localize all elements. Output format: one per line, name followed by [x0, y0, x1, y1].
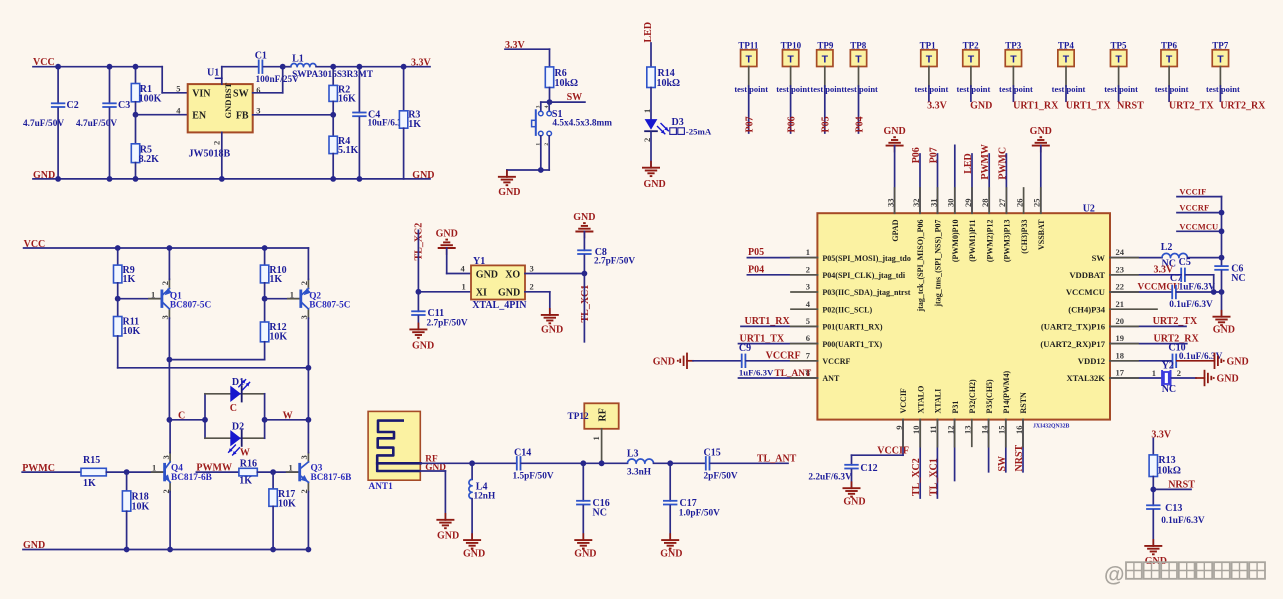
wire C7 to bus — [1177, 291, 1222, 293]
wire pin 2 — [747, 274, 817, 276]
wire C10 to GND — [1177, 360, 1215, 362]
resistor R17 — [269, 472, 296, 549]
svg-text:1K: 1K — [83, 478, 96, 489]
net label SW — [567, 92, 583, 103]
svg-text:SW: SW — [997, 456, 1008, 472]
svg-text:jtag_tck_(SPI_MISO)_P06: jtag_tck_(SPI_MISO)_P06 — [916, 220, 925, 313]
junction — [219, 176, 225, 182]
resistor R13 — [1149, 455, 1181, 477]
label test point — [1052, 84, 1086, 94]
pin 1 — [290, 289, 294, 299]
svg-text:test point: test point — [1155, 84, 1189, 94]
svg-text:(PWM0)P10: (PWM0)P10 — [951, 220, 960, 263]
svg-text:GND: GND — [1030, 126, 1052, 137]
wire pin 17 — [1110, 377, 1161, 379]
svg-text:W: W — [283, 410, 293, 421]
svg-text:P32(CH2): P32(CH2) — [968, 379, 977, 414]
svg-text:XTAL_4PIN: XTAL_4PIN — [472, 300, 527, 311]
net label VCCIF — [877, 445, 909, 456]
svg-text:test point: test point — [734, 84, 768, 94]
svg-text:2: 2 — [160, 281, 170, 285]
net label NRST — [1117, 101, 1144, 112]
svg-text:5: 5 — [176, 84, 180, 94]
svg-text:ANT: ANT — [822, 374, 840, 383]
capacitor C1 — [255, 51, 299, 86]
wire pin 16 — [1022, 420, 1024, 472]
svg-text:1: 1 — [290, 289, 294, 299]
pin 3 — [256, 105, 260, 115]
junction — [667, 460, 673, 466]
capacitor C16 — [576, 463, 610, 540]
test point TP11 — [738, 41, 759, 67]
wire pin 30 — [954, 145, 956, 213]
capacitor C14 — [513, 448, 554, 482]
junction — [357, 176, 363, 182]
pin 2 — [299, 489, 309, 493]
svg-text:T: T — [1217, 54, 1224, 66]
net label W — [283, 410, 293, 421]
svg-text:T: T — [968, 54, 975, 66]
svg-text:4: 4 — [544, 105, 550, 108]
svg-text:TP3: TP3 — [1005, 41, 1022, 51]
capacitor C10 — [1110, 342, 1223, 368]
ground — [686, 353, 688, 369]
ground — [1040, 146, 1042, 152]
test point TP2 — [963, 41, 980, 67]
wire D3 to GND — [650, 132, 652, 168]
net label VCCIF — [1179, 187, 1206, 197]
net label 3.3V — [1154, 265, 1175, 276]
svg-text:10K: 10K — [132, 502, 150, 513]
test point TP12 — [568, 403, 619, 429]
svg-text:TP10: TP10 — [781, 41, 802, 51]
svg-text:P02(IIC_SCL): P02(IIC_SCL) — [822, 305, 872, 314]
svg-text:1uF/6.3V: 1uF/6.3V — [739, 368, 774, 378]
svg-text:T: T — [745, 54, 752, 66]
pin name (PWM0)P10 — [951, 220, 960, 263]
wire TL_ANT — [710, 462, 788, 464]
pin 8 — [806, 368, 810, 378]
label test point — [810, 84, 844, 94]
wire pin 21 stub — [1110, 308, 1157, 310]
pin name P04(SPI_CLK)_jtag_tdi — [822, 271, 905, 280]
svg-text:10kΩ: 10kΩ — [1157, 465, 1181, 476]
svg-text:1uF/6.3V: 1uF/6.3V — [1179, 282, 1216, 292]
wire L4 to GND — [471, 499, 473, 540]
pin name P02(IIC_SCL) — [822, 305, 872, 314]
net label TL_XC1 vertical — [580, 285, 591, 323]
pin name VSSBAT — [1037, 219, 1046, 250]
svg-text:BC807-5C: BC807-5C — [170, 301, 211, 311]
svg-text:BC817-6B: BC817-6B — [311, 473, 352, 483]
pin name (PWM2)P12 — [985, 220, 994, 263]
wire pin 24 to L2 — [1110, 257, 1162, 259]
svg-text:R16: R16 — [240, 458, 257, 469]
value blue-25mA — [670, 126, 712, 136]
pin BST wire — [222, 67, 258, 84]
svg-text:5: 5 — [806, 316, 810, 326]
svg-text:3.3V: 3.3V — [411, 57, 432, 68]
svg-text:BST: BST — [223, 82, 233, 98]
pin name XTALI — [934, 389, 943, 414]
svg-text:1: 1 — [151, 289, 155, 299]
wire VCCRF — [1177, 212, 1222, 214]
wire LED net — [650, 43, 652, 67]
resistor R15 — [81, 468, 106, 476]
junction — [306, 365, 312, 371]
wire ANT GND — [421, 471, 446, 520]
pin 1 — [151, 289, 155, 299]
svg-text:test point: test point — [915, 84, 949, 94]
pin name (PWM1)P11 — [968, 220, 977, 262]
svg-text:1.0pF/50V: 1.0pF/50V — [679, 509, 720, 519]
svg-text:GND: GND — [412, 341, 434, 352]
junction — [167, 417, 173, 423]
ground — [582, 534, 584, 540]
pin 2 — [642, 138, 652, 142]
svg-text:D3: D3 — [672, 117, 684, 128]
svg-text:VCCIF: VCCIF — [899, 388, 908, 413]
svg-text:0.1uF/6.3V: 0.1uF/6.3V — [1169, 300, 1213, 310]
pin 4 — [544, 105, 550, 108]
svg-text:SW: SW — [233, 88, 249, 99]
ground — [1221, 311, 1223, 317]
pin name XTAL32K — [1066, 373, 1105, 383]
pin name GPAD — [891, 219, 900, 241]
ground — [650, 162, 652, 168]
svg-text:TP7: TP7 — [1212, 41, 1229, 51]
test point TP6 — [1161, 41, 1178, 67]
pin 15 — [997, 426, 1007, 435]
svg-text:GND: GND — [574, 549, 596, 560]
pin 2 wire GND — [525, 292, 550, 315]
label test point — [1206, 84, 1240, 94]
svg-text:1: 1 — [642, 109, 652, 113]
pin 4 — [806, 299, 811, 309]
wire bus — [1221, 197, 1223, 267]
pin name P03(IIC_SDA)_jtag_ntrst — [822, 288, 910, 297]
pin name VCCRF — [822, 357, 850, 366]
wire Q3 emitter — [307, 492, 309, 550]
junction — [124, 547, 130, 553]
svg-text:C2: C2 — [67, 100, 79, 111]
svg-text:C13: C13 — [1165, 503, 1182, 514]
capacitor C13 — [1146, 503, 1205, 546]
pin name P14(PWM4) — [1002, 371, 1011, 414]
net label URT1_TX — [740, 333, 785, 344]
svg-text:T: T — [1063, 54, 1070, 66]
pin 1 — [289, 463, 293, 473]
switch S1 — [532, 102, 613, 136]
wire C5 to pin22 row — [1186, 275, 1214, 292]
pin 32 — [911, 199, 921, 208]
capacitor C6 — [1214, 264, 1245, 285]
svg-text:U1: U1 — [207, 68, 219, 79]
net label TL_ANT — [757, 453, 797, 464]
wire pin 10 — [919, 420, 921, 498]
svg-text:L3: L3 — [627, 449, 639, 460]
net label 3.3V — [927, 101, 948, 112]
net label URT2_TX — [1153, 316, 1198, 327]
svg-text:RSTN: RSTN — [1019, 392, 1028, 414]
pin 5 — [806, 316, 810, 326]
pin 19 — [1116, 333, 1125, 343]
wire S1 to GND — [507, 136, 549, 177]
wire Y2 to GND — [1172, 377, 1205, 379]
wire to Q4 base — [106, 471, 163, 473]
pin wire — [1168, 67, 1170, 102]
junction — [1219, 289, 1225, 295]
crystal Y2 — [1162, 360, 1176, 395]
junction — [124, 469, 130, 475]
wire to Q3 base — [257, 471, 298, 473]
svg-text:T: T — [1115, 54, 1122, 66]
capacitor C15 — [704, 448, 738, 482]
wire pin 31 — [937, 154, 939, 213]
wire pin 19 — [1110, 343, 1187, 345]
pin 30 — [946, 199, 956, 208]
wire C14 to L3 — [521, 462, 627, 464]
svg-text:(CH3)P33: (CH3)P33 — [1020, 220, 1029, 254]
svg-text:LED: LED — [643, 22, 654, 43]
pin 17 — [1116, 368, 1125, 378]
resistor R11 — [114, 299, 141, 368]
junction — [262, 417, 268, 423]
junction — [133, 64, 139, 70]
pin name P01(UART1_RX) — [822, 323, 882, 332]
wire pin 8 — [739, 377, 818, 379]
net label 3.3V — [505, 40, 526, 51]
svg-text:P03(IIC_SDA)_jtag_ntrst: P03(IIC_SDA)_jtag_ntrst — [822, 288, 910, 297]
net label C — [178, 410, 185, 421]
svg-text:VCCIF: VCCIF — [1179, 187, 1206, 197]
net label P04 — [854, 116, 865, 132]
svg-text:P00(UART1_TX): P00(UART1_TX) — [822, 340, 882, 349]
wire pin 3 stub — [791, 291, 817, 293]
LED D1 — [230, 386, 241, 402]
net label URT1_RX — [1013, 101, 1059, 112]
svg-text:22: 22 — [1116, 282, 1125, 292]
wire R14 to D3 — [650, 88, 652, 120]
junction — [167, 547, 173, 553]
wire Q4 emitter — [169, 492, 171, 550]
label test point — [915, 84, 949, 94]
pin name P00(UART1_TX) — [822, 340, 882, 349]
net label PWMW — [196, 462, 232, 473]
svg-text:NC: NC — [593, 508, 607, 519]
svg-text:2: 2 — [299, 489, 309, 493]
inductor L3 — [628, 459, 654, 463]
svg-text:3.3nH: 3.3nH — [627, 468, 652, 478]
wire SW to C1 — [253, 67, 283, 93]
pin stubs left — [791, 258, 818, 378]
wire GND rail — [33, 178, 430, 180]
svg-text:16K: 16K — [338, 94, 356, 105]
wire Q4 collector — [169, 420, 171, 453]
svg-text:10K: 10K — [278, 499, 296, 510]
pin 2 — [212, 132, 222, 179]
svg-text:VCCIF: VCCIF — [877, 445, 909, 456]
wire FB net — [253, 114, 334, 116]
pin wire — [790, 67, 792, 134]
pin 3 — [806, 282, 810, 292]
net label VCCRF — [1179, 203, 1209, 213]
svg-text:1: 1 — [152, 463, 156, 473]
svg-text:18: 18 — [1116, 350, 1125, 360]
net label PWMC vertical — [997, 147, 1008, 180]
svg-text:P06: P06 — [786, 116, 797, 132]
pin 1 — [462, 282, 466, 292]
junction — [1211, 289, 1217, 295]
wire PWMC — [22, 471, 81, 473]
net label TL_XC2 vertical — [414, 223, 425, 261]
pin 5 — [176, 84, 180, 94]
pin 1 — [152, 463, 156, 473]
svg-text:100K: 100K — [139, 94, 162, 105]
pin 26 — [1014, 199, 1024, 208]
svg-text:test point: test point — [1104, 84, 1138, 94]
svg-text:URT1_RX: URT1_RX — [1013, 101, 1059, 112]
test point TP1 — [920, 41, 937, 67]
svg-text:3: 3 — [161, 455, 171, 459]
svg-text:TP11: TP11 — [738, 41, 759, 51]
antenna ANT1 — [368, 411, 420, 492]
svg-text:JXI432QN32B: JXI432QN32B — [1033, 424, 1070, 430]
svg-text:2.7pF/50V: 2.7pF/50V — [427, 318, 468, 328]
svg-text:(CH4)P34: (CH4)P34 — [1068, 304, 1105, 314]
ground — [471, 534, 473, 540]
wire R13 to NRST — [1152, 477, 1154, 506]
pin 3 — [530, 263, 534, 273]
svg-text:2pF/50V: 2pF/50V — [704, 472, 738, 482]
resistor R12 — [260, 299, 287, 360]
resistor R2 — [329, 67, 356, 115]
svg-text:Y2: Y2 — [1162, 360, 1174, 371]
svg-text:P35(CH5): P35(CH5) — [985, 379, 994, 414]
svg-text:TP4: TP4 — [1058, 41, 1075, 51]
svg-text:U2: U2 — [1083, 204, 1095, 215]
ground — [669, 534, 671, 540]
svg-text:2: 2 — [212, 141, 222, 145]
net label VCCRF — [766, 351, 801, 362]
LED D2 — [230, 430, 241, 446]
wire GND to C8 — [583, 232, 585, 251]
svg-text:GND: GND — [476, 269, 498, 280]
wire bus lower — [1221, 271, 1223, 317]
ground — [1214, 353, 1216, 369]
net label LED vertical — [963, 153, 974, 174]
svg-text:TP6: TP6 — [1161, 41, 1178, 51]
pin 28 — [980, 199, 990, 208]
svg-text:FB: FB — [236, 110, 249, 121]
IC U2 — [817, 204, 1110, 420]
pin 3 — [160, 315, 170, 319]
junction — [115, 296, 121, 302]
pin 1 wire — [601, 429, 603, 464]
svg-text:T: T — [855, 54, 862, 66]
svg-text:1: 1 — [1152, 368, 1156, 378]
test point TP8 — [850, 41, 867, 67]
wire pin 33 — [894, 146, 896, 214]
svg-text:1: 1 — [462, 282, 466, 292]
svg-text:23: 23 — [1116, 264, 1125, 274]
svg-text:C1: C1 — [255, 51, 267, 62]
pin name SW — [1092, 253, 1106, 263]
svg-text:1: 1 — [591, 436, 601, 440]
wire pin 14 — [988, 420, 990, 472]
wire VCC rail — [33, 66, 162, 68]
capacitor C9 — [739, 343, 774, 378]
wire R6 to SW node — [549, 88, 551, 103]
capacitor C12 — [808, 463, 877, 488]
pin name RSTN — [1019, 392, 1028, 414]
wire Q2 collector — [307, 318, 309, 368]
wire EN net — [136, 114, 188, 116]
svg-text:L1: L1 — [292, 54, 304, 65]
wire pin 9 VCCIF — [852, 420, 904, 465]
wire pin 22 — [1110, 291, 1172, 293]
svg-text:EN: EN — [192, 110, 207, 121]
pin 16 — [1014, 426, 1024, 435]
net label URT1_RX — [745, 316, 791, 327]
svg-text:VSSBAT: VSSBAT — [1037, 219, 1046, 250]
svg-text:P05: P05 — [821, 116, 832, 132]
wire pin 7 — [746, 360, 817, 362]
pin 10 — [911, 426, 921, 435]
pin name VCCIF — [899, 388, 908, 413]
svg-text:GND: GND — [1217, 374, 1239, 385]
resistor R18 — [122, 472, 149, 549]
pin 21 — [1116, 299, 1125, 309]
resistor R9 — [114, 248, 136, 299]
svg-text:P01(UART1_RX): P01(UART1_RX) — [822, 323, 882, 332]
capacitor C3 — [76, 67, 130, 179]
svg-text:TP2: TP2 — [963, 41, 980, 51]
svg-text:1: 1 — [806, 247, 810, 257]
ground — [506, 171, 508, 177]
svg-text:1K: 1K — [239, 476, 252, 487]
svg-text:RF: RF — [597, 408, 608, 421]
wire TL_XC2 — [417, 230, 419, 291]
wire VCC rail — [24, 247, 309, 249]
net label LED — [643, 22, 654, 43]
svg-text:BC807-5C: BC807-5C — [309, 301, 350, 311]
svg-text:P05: P05 — [748, 247, 764, 258]
svg-text:24: 24 — [1116, 247, 1125, 257]
wire pin 25 — [1040, 146, 1042, 214]
wire down to W node — [307, 368, 309, 420]
pin 2 — [544, 143, 550, 146]
pin 2 — [299, 281, 309, 285]
pin 22 — [1116, 282, 1125, 292]
svg-text:SW: SW — [1092, 253, 1106, 263]
pin name jtag_tms_(SPI_NSS)_P07 — [934, 219, 943, 307]
pin 18 — [1116, 350, 1125, 360]
net label VCCMCU — [1179, 221, 1218, 231]
svg-text:GND: GND — [412, 170, 434, 181]
test point TP7 — [1212, 41, 1229, 67]
pin 1 — [806, 247, 810, 257]
junction — [167, 245, 173, 251]
capacitor C17 — [663, 463, 720, 540]
pin stubs right — [1110, 258, 1138, 378]
svg-text:21: 21 — [1116, 299, 1125, 309]
pin 3 — [299, 455, 309, 459]
pin name (PWM3)P13 — [1003, 220, 1012, 263]
svg-text:C5: C5 — [1179, 257, 1191, 268]
svg-text:2: 2 — [299, 281, 309, 285]
junction — [330, 112, 336, 118]
